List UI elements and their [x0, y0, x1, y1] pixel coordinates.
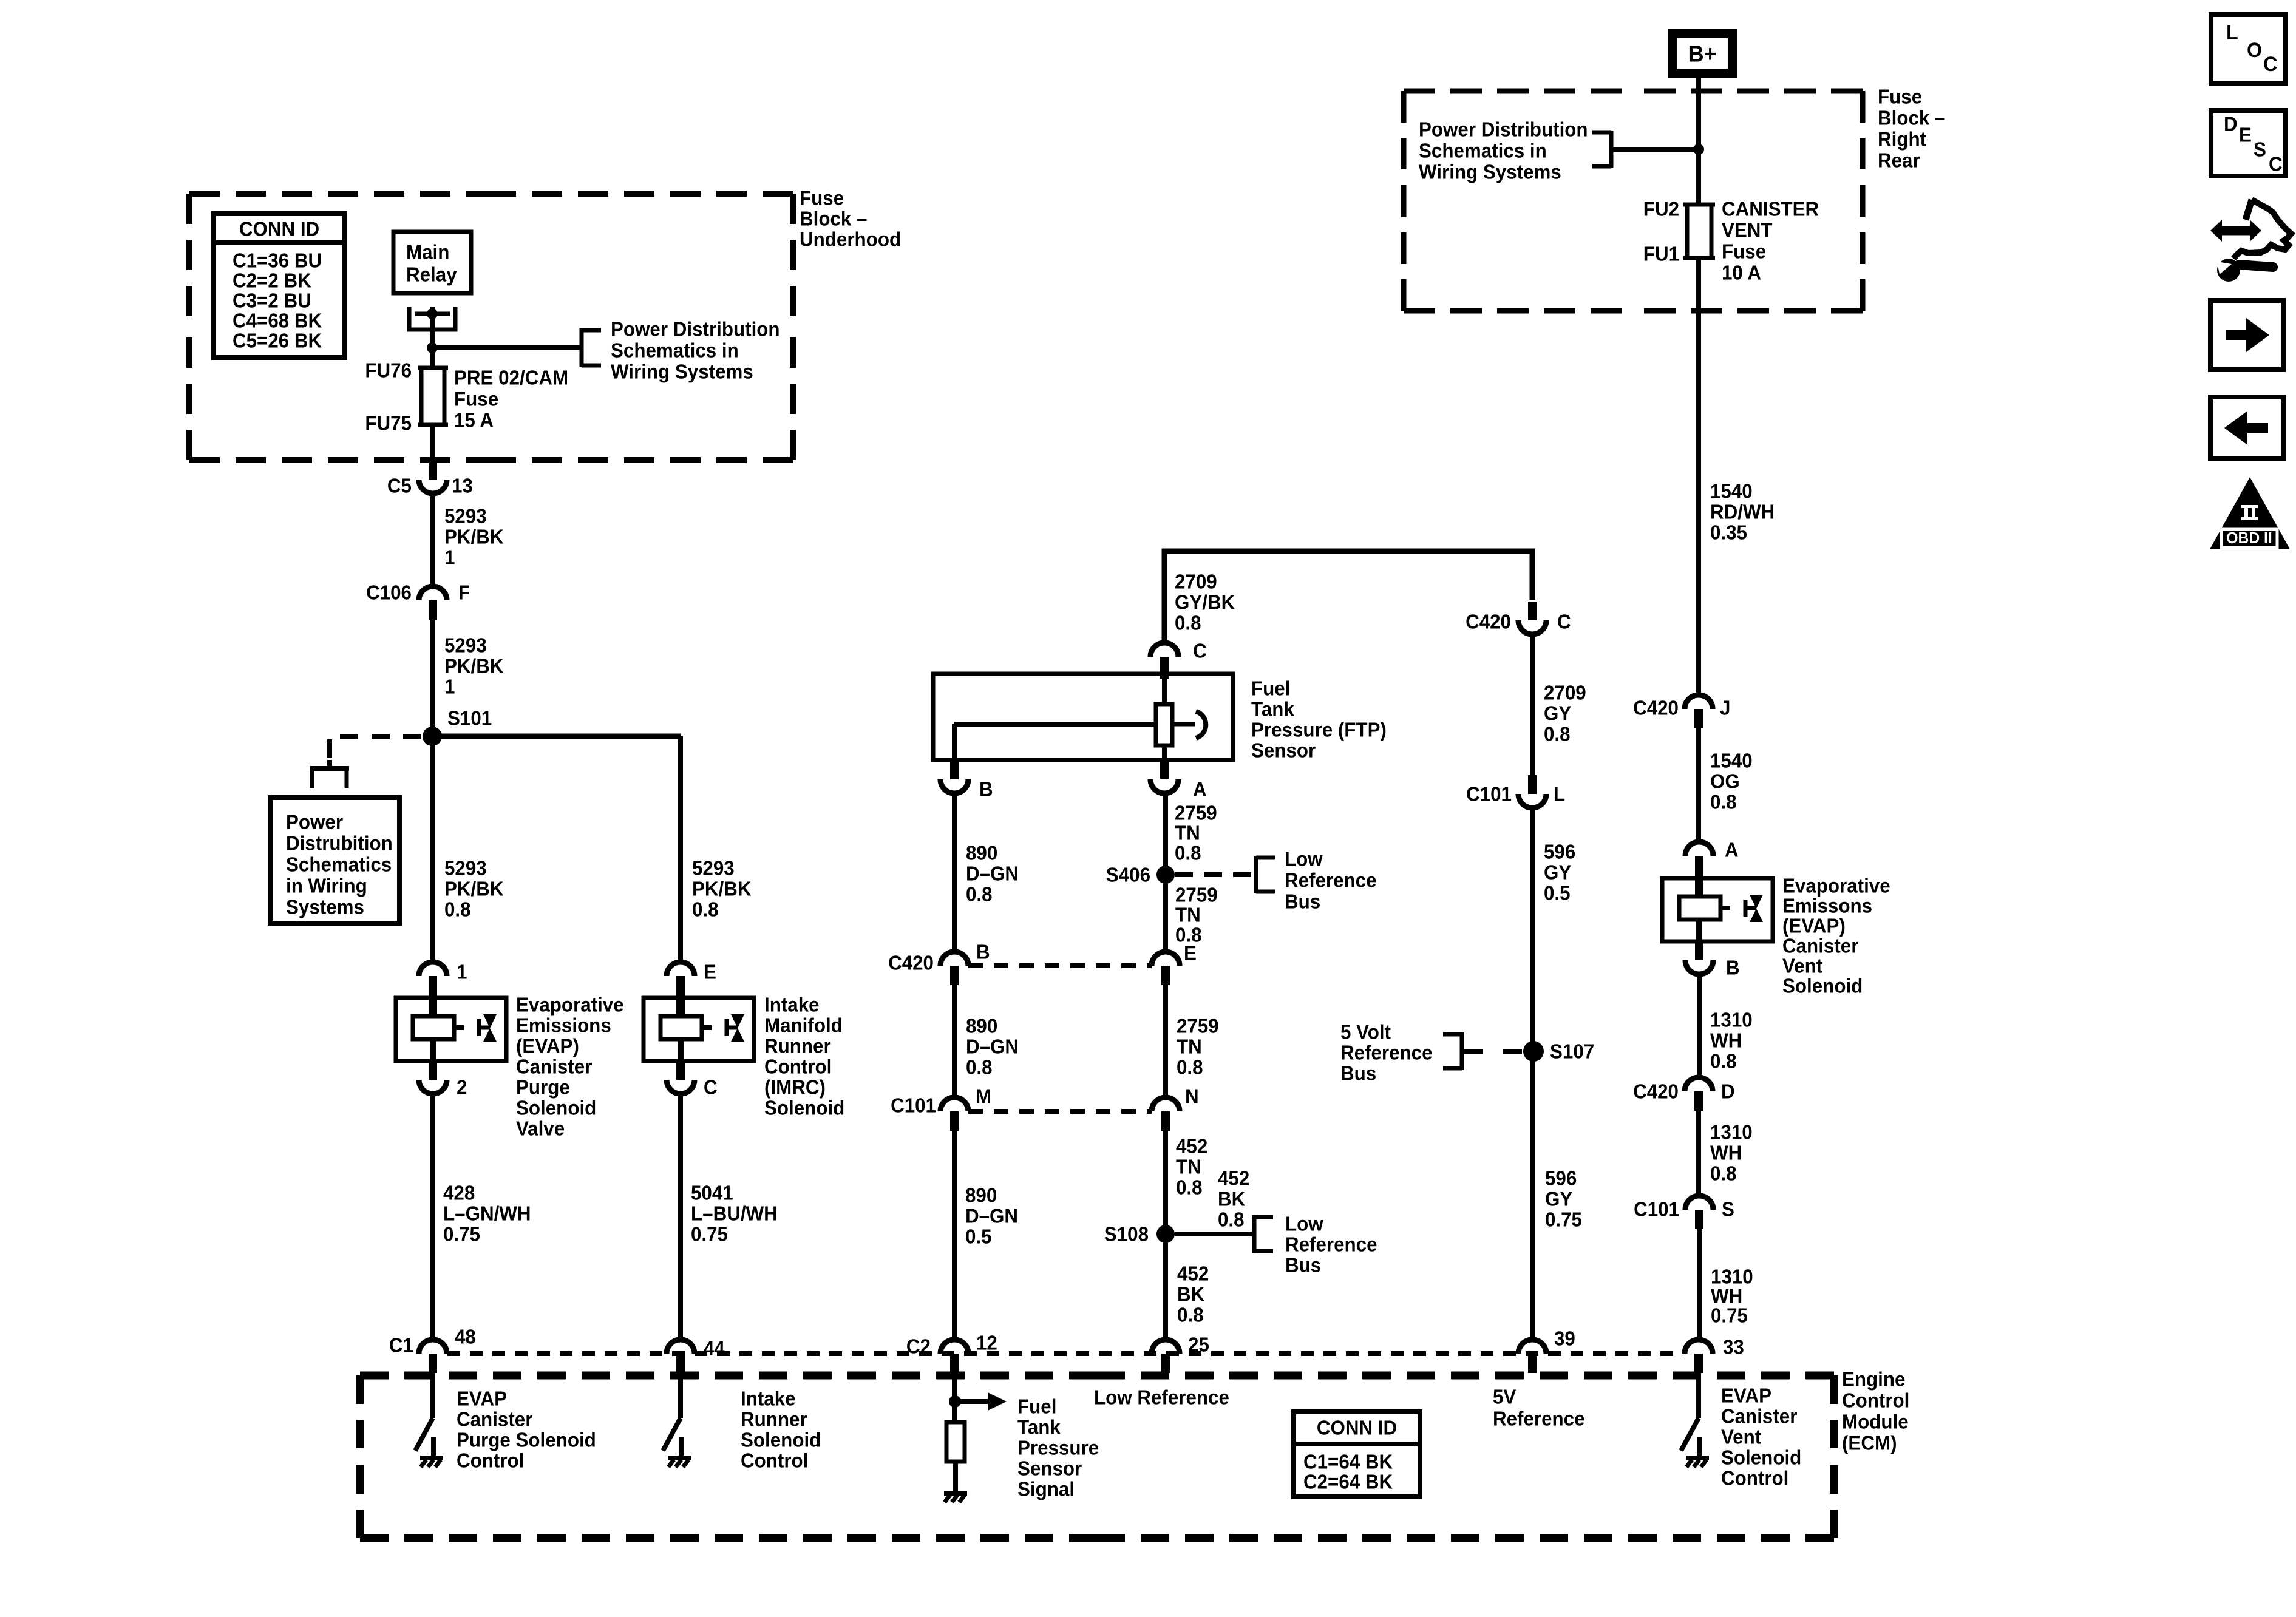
svg-text:Low Reference: Low Reference: [1094, 1386, 1229, 1409]
svg-text:Low: Low: [1285, 848, 1323, 870]
svg-text:Canister: Canister: [516, 1056, 593, 1078]
svg-text:EVAP: EVAP: [1721, 1385, 1771, 1407]
svg-text:FU76: FU76: [365, 359, 412, 382]
svg-text:L: L: [1554, 783, 1565, 805]
svg-text:Vent: Vent: [1721, 1426, 1761, 1448]
svg-text:D: D: [2224, 113, 2238, 135]
svg-text:TN: TN: [1177, 1036, 1202, 1058]
svg-text:0.8: 0.8: [966, 1056, 993, 1079]
svg-text:Canister: Canister: [1721, 1405, 1798, 1428]
svg-text:Sensor: Sensor: [1017, 1457, 1082, 1480]
svg-text:C101: C101: [1634, 1198, 1679, 1221]
svg-text:0.35: 0.35: [1710, 521, 1747, 544]
svg-text:Power Distribution: Power Distribution: [1419, 118, 1588, 141]
svg-text:B: B: [979, 778, 993, 801]
svg-text:5293: 5293: [444, 505, 487, 527]
svg-text:C420: C420: [888, 952, 934, 974]
svg-text:44: 44: [704, 1337, 725, 1360]
svg-text:D–GN: D–GN: [965, 1205, 1018, 1227]
svg-text:890: 890: [965, 1184, 997, 1207]
svg-text:0.8: 0.8: [1177, 1304, 1204, 1326]
svg-text:Vent: Vent: [1782, 955, 1822, 977]
svg-text:2: 2: [457, 1076, 467, 1099]
svg-text:C420: C420: [1466, 611, 1511, 633]
svg-text:48: 48: [455, 1326, 476, 1348]
svg-text:Control: Control: [741, 1449, 808, 1472]
svg-text:Control: Control: [457, 1449, 524, 1472]
svg-text:S: S: [1722, 1198, 1734, 1221]
svg-text:Module: Module: [1842, 1411, 1909, 1433]
svg-text:D–GN: D–GN: [966, 1036, 1019, 1058]
svg-text:1310: 1310: [1710, 1121, 1753, 1144]
svg-text:Right: Right: [1878, 128, 1926, 151]
svg-text:WH: WH: [1710, 1029, 1742, 1052]
svg-text:Low: Low: [1285, 1213, 1324, 1235]
svg-text:C5: C5: [387, 475, 412, 497]
svg-text:Power: Power: [286, 811, 344, 833]
svg-text:Control: Control: [1721, 1467, 1788, 1490]
svg-text:PRE 02/CAM: PRE 02/CAM: [454, 367, 568, 389]
svg-text:Wiring Systems: Wiring Systems: [1419, 161, 1561, 183]
svg-text:RD/WH: RD/WH: [1710, 501, 1775, 523]
svg-text:5293: 5293: [692, 857, 735, 880]
svg-text:B+: B+: [1688, 40, 1716, 66]
svg-text:OG: OG: [1710, 770, 1740, 793]
svg-text:Bus: Bus: [1285, 1254, 1321, 1276]
svg-text:5V: 5V: [1493, 1386, 1517, 1408]
svg-text:Control: Control: [1842, 1389, 1909, 1412]
svg-text:452: 452: [1176, 1135, 1207, 1158]
svg-text:0.5: 0.5: [965, 1225, 992, 1248]
svg-text:Solenoid: Solenoid: [741, 1429, 821, 1451]
svg-text:D–GN: D–GN: [966, 863, 1019, 885]
svg-text:O: O: [2247, 39, 2262, 62]
svg-text:Fuse: Fuse: [1878, 86, 1922, 108]
svg-text:Purge Solenoid: Purge Solenoid: [457, 1429, 596, 1451]
svg-text:GY: GY: [1544, 861, 1571, 884]
svg-text:Control: Control: [764, 1056, 832, 1078]
svg-text:Valve: Valve: [516, 1117, 565, 1140]
svg-text:PK/BK: PK/BK: [692, 878, 752, 900]
svg-text:D: D: [1721, 1080, 1735, 1103]
svg-text:CONN ID: CONN ID: [1317, 1417, 1397, 1439]
svg-text:0.8: 0.8: [1544, 723, 1571, 745]
svg-text:PK/BK: PK/BK: [444, 655, 504, 677]
svg-text:J: J: [1720, 697, 1730, 719]
svg-text:OBD II: OBD II: [2226, 530, 2272, 547]
svg-text:Evaporative: Evaporative: [516, 994, 624, 1016]
svg-text:Tank: Tank: [1251, 698, 1294, 720]
svg-text:Relay: Relay: [406, 263, 457, 286]
svg-text:1540: 1540: [1710, 480, 1753, 503]
svg-text:Manifold: Manifold: [764, 1014, 843, 1037]
svg-text:Reference: Reference: [1493, 1408, 1585, 1430]
svg-text:C1=64 BK: C1=64 BK: [1303, 1451, 1393, 1473]
svg-text:0.8: 0.8: [1175, 612, 1201, 634]
svg-text:Reference: Reference: [1285, 869, 1377, 892]
svg-text:FU1: FU1: [1643, 243, 1679, 265]
svg-text:452: 452: [1218, 1167, 1249, 1190]
svg-text:Fuel: Fuel: [1017, 1395, 1056, 1418]
svg-text:C420: C420: [1633, 1080, 1679, 1103]
svg-text:Solenoid: Solenoid: [764, 1097, 844, 1119]
svg-text:Evaporative: Evaporative: [1782, 875, 1890, 897]
svg-text:Bus: Bus: [1285, 890, 1320, 913]
svg-text:Wiring Systems: Wiring Systems: [611, 361, 753, 383]
svg-text:BK: BK: [1218, 1188, 1245, 1210]
svg-text:2709: 2709: [1544, 682, 1586, 704]
svg-text:C: C: [1557, 611, 1571, 633]
svg-text:C106: C106: [366, 581, 412, 604]
svg-text:Signal: Signal: [1017, 1478, 1075, 1500]
svg-text:N: N: [1185, 1085, 1199, 1108]
svg-text:Systems: Systems: [286, 896, 364, 918]
svg-text:Runner: Runner: [741, 1408, 807, 1431]
svg-text:890: 890: [966, 1015, 997, 1037]
svg-text:13: 13: [452, 475, 473, 497]
svg-text:5293: 5293: [444, 857, 487, 880]
svg-text:Bus: Bus: [1340, 1062, 1376, 1085]
svg-text:0.75: 0.75: [1711, 1304, 1748, 1327]
svg-text:S406: S406: [1106, 864, 1150, 886]
svg-text:39: 39: [1554, 1327, 1575, 1350]
svg-text:Solenoid: Solenoid: [1721, 1446, 1801, 1469]
svg-text:L–BU/WH: L–BU/WH: [691, 1202, 778, 1225]
svg-text:Schematics in: Schematics in: [1419, 140, 1547, 162]
svg-text:Engine: Engine: [1842, 1368, 1905, 1391]
svg-text:Pressure: Pressure: [1017, 1437, 1099, 1459]
svg-text:C3=2 BU: C3=2 BU: [233, 290, 311, 312]
svg-text:0.8: 0.8: [966, 883, 993, 906]
svg-text:Solenoid: Solenoid: [1782, 975, 1863, 997]
svg-text:428: 428: [443, 1182, 475, 1204]
svg-text:Reference: Reference: [1285, 1233, 1377, 1256]
svg-text:B: B: [976, 941, 990, 963]
svg-text:5 Volt: 5 Volt: [1340, 1021, 1391, 1043]
svg-text:C: C: [2269, 153, 2283, 175]
svg-text:L–GN/WH: L–GN/WH: [443, 1202, 531, 1225]
svg-text:C2: C2: [906, 1335, 931, 1358]
svg-text:C: C: [2263, 53, 2277, 76]
svg-text:0.8: 0.8: [1710, 791, 1737, 813]
svg-text:Pressure (FTP): Pressure (FTP): [1251, 719, 1387, 741]
svg-text:WH: WH: [1710, 1142, 1742, 1164]
svg-text:E: E: [704, 961, 716, 983]
svg-text:B: B: [1726, 957, 1740, 979]
svg-text:Fuse: Fuse: [800, 187, 844, 209]
svg-text:Rear: Rear: [1878, 149, 1920, 172]
svg-text:Fuse: Fuse: [454, 388, 498, 410]
svg-text:1310: 1310: [1710, 1009, 1753, 1031]
svg-text:2709: 2709: [1175, 571, 1217, 593]
svg-text:0.75: 0.75: [443, 1223, 480, 1246]
svg-text:GY/BK: GY/BK: [1175, 591, 1235, 614]
svg-text:Fuel: Fuel: [1251, 677, 1290, 700]
svg-text:2759: 2759: [1175, 802, 1217, 824]
svg-text:S: S: [2254, 138, 2266, 161]
svg-text:10 A: 10 A: [1722, 262, 1761, 284]
svg-text:596: 596: [1544, 841, 1575, 863]
svg-text:PK/BK: PK/BK: [444, 526, 504, 548]
svg-text:0.5: 0.5: [1544, 882, 1571, 904]
svg-text:FU75: FU75: [365, 412, 412, 435]
svg-text:Tank: Tank: [1017, 1416, 1061, 1439]
svg-text:C420: C420: [1633, 697, 1679, 719]
svg-text:0.8: 0.8: [692, 898, 719, 921]
svg-text:Canister: Canister: [457, 1408, 533, 1431]
svg-text:Underhood: Underhood: [800, 228, 901, 251]
svg-text:BK: BK: [1177, 1283, 1204, 1306]
svg-text:1: 1: [444, 546, 455, 569]
svg-text:S107: S107: [1550, 1040, 1594, 1063]
svg-text:E: E: [1184, 942, 1197, 964]
svg-text:(ECM): (ECM): [1842, 1432, 1897, 1454]
svg-text:PK/BK: PK/BK: [444, 878, 504, 900]
svg-text:C1: C1: [389, 1334, 413, 1357]
svg-text:Intake: Intake: [741, 1388, 796, 1410]
svg-text:15 A: 15 A: [454, 409, 494, 432]
svg-text:Intake: Intake: [764, 994, 820, 1016]
svg-text:TN: TN: [1176, 1156, 1201, 1178]
svg-text:F: F: [458, 581, 470, 604]
svg-text:0.8: 0.8: [444, 898, 471, 921]
svg-text:1: 1: [457, 961, 467, 983]
svg-text:C: C: [1193, 640, 1207, 662]
svg-text:C5=26 BK: C5=26 BK: [233, 330, 322, 352]
svg-text:33: 33: [1723, 1336, 1744, 1358]
svg-text:A: A: [1725, 839, 1739, 861]
svg-text:C1=36 BU: C1=36 BU: [233, 249, 322, 272]
svg-text:2759: 2759: [1177, 1015, 1219, 1037]
svg-text:M: M: [976, 1085, 991, 1108]
svg-text:Emissons: Emissons: [1782, 895, 1872, 917]
svg-text:596: 596: [1545, 1167, 1577, 1190]
svg-text:Block –: Block –: [800, 208, 867, 230]
svg-text:(IMRC): (IMRC): [764, 1076, 826, 1099]
svg-text:0.8: 0.8: [1710, 1162, 1737, 1185]
svg-text:1: 1: [444, 676, 455, 698]
svg-text:0.8: 0.8: [1175, 842, 1201, 864]
svg-text:in Wiring: in Wiring: [286, 875, 367, 897]
svg-text:C101: C101: [1466, 783, 1512, 805]
svg-text:S108: S108: [1104, 1223, 1149, 1246]
svg-text:Sensor: Sensor: [1251, 739, 1316, 762]
svg-text:Reference: Reference: [1340, 1042, 1433, 1064]
svg-text:Power Distribution: Power Distribution: [611, 318, 780, 341]
svg-text:5041: 5041: [691, 1182, 733, 1204]
svg-text:C2=2 BK: C2=2 BK: [233, 269, 311, 292]
svg-text:Solenoid: Solenoid: [516, 1097, 596, 1119]
svg-text:CONN ID: CONN ID: [239, 218, 319, 240]
svg-text:1540: 1540: [1710, 750, 1753, 772]
svg-text:Block –: Block –: [1878, 107, 1945, 129]
svg-text:0.75: 0.75: [691, 1223, 728, 1246]
svg-text:0.8: 0.8: [1218, 1209, 1245, 1231]
svg-text:25: 25: [1188, 1334, 1209, 1356]
svg-text:12: 12: [976, 1332, 997, 1354]
svg-text:A: A: [1193, 778, 1207, 801]
svg-text:FU2: FU2: [1643, 198, 1679, 220]
svg-text:C4=68 BK: C4=68 BK: [233, 310, 322, 332]
svg-text:S101: S101: [447, 707, 492, 730]
svg-text:E: E: [2239, 124, 2252, 146]
svg-text:2759: 2759: [1175, 884, 1218, 906]
svg-text:452: 452: [1177, 1263, 1209, 1285]
svg-text:Schematics in: Schematics in: [611, 339, 739, 362]
svg-text:C101: C101: [891, 1094, 936, 1117]
svg-text:5293: 5293: [444, 634, 487, 657]
svg-text:0.8: 0.8: [1176, 1176, 1203, 1199]
svg-text:Main: Main: [406, 241, 449, 263]
svg-text:0.8: 0.8: [1710, 1050, 1737, 1073]
svg-text:L: L: [2226, 21, 2238, 44]
svg-text:0.75: 0.75: [1545, 1209, 1582, 1231]
svg-text:Canister: Canister: [1782, 935, 1859, 957]
svg-text:Emissions: Emissions: [516, 1014, 611, 1037]
svg-text:C2=64 BK: C2=64 BK: [1303, 1471, 1393, 1493]
svg-text:(EVAP): (EVAP): [516, 1035, 579, 1057]
svg-text:Fuse: Fuse: [1722, 240, 1766, 263]
svg-text:(EVAP): (EVAP): [1782, 915, 1846, 937]
svg-text:EVAP: EVAP: [457, 1388, 507, 1410]
svg-text:C: C: [704, 1076, 718, 1099]
svg-text:Schematics: Schematics: [286, 853, 392, 876]
svg-text:Runner: Runner: [764, 1035, 831, 1057]
svg-text:890: 890: [966, 842, 997, 864]
svg-text:0.8: 0.8: [1177, 1056, 1203, 1079]
svg-text:GY: GY: [1544, 702, 1571, 725]
svg-text:Purge: Purge: [516, 1076, 570, 1099]
svg-text:TN: TN: [1175, 822, 1200, 844]
svg-text:CANISTER: CANISTER: [1722, 198, 1819, 220]
svg-text:GY: GY: [1545, 1188, 1572, 1210]
svg-text:Distrubition: Distrubition: [286, 832, 393, 855]
svg-text:VENT: VENT: [1722, 219, 1773, 242]
svg-text:TN: TN: [1175, 904, 1201, 926]
